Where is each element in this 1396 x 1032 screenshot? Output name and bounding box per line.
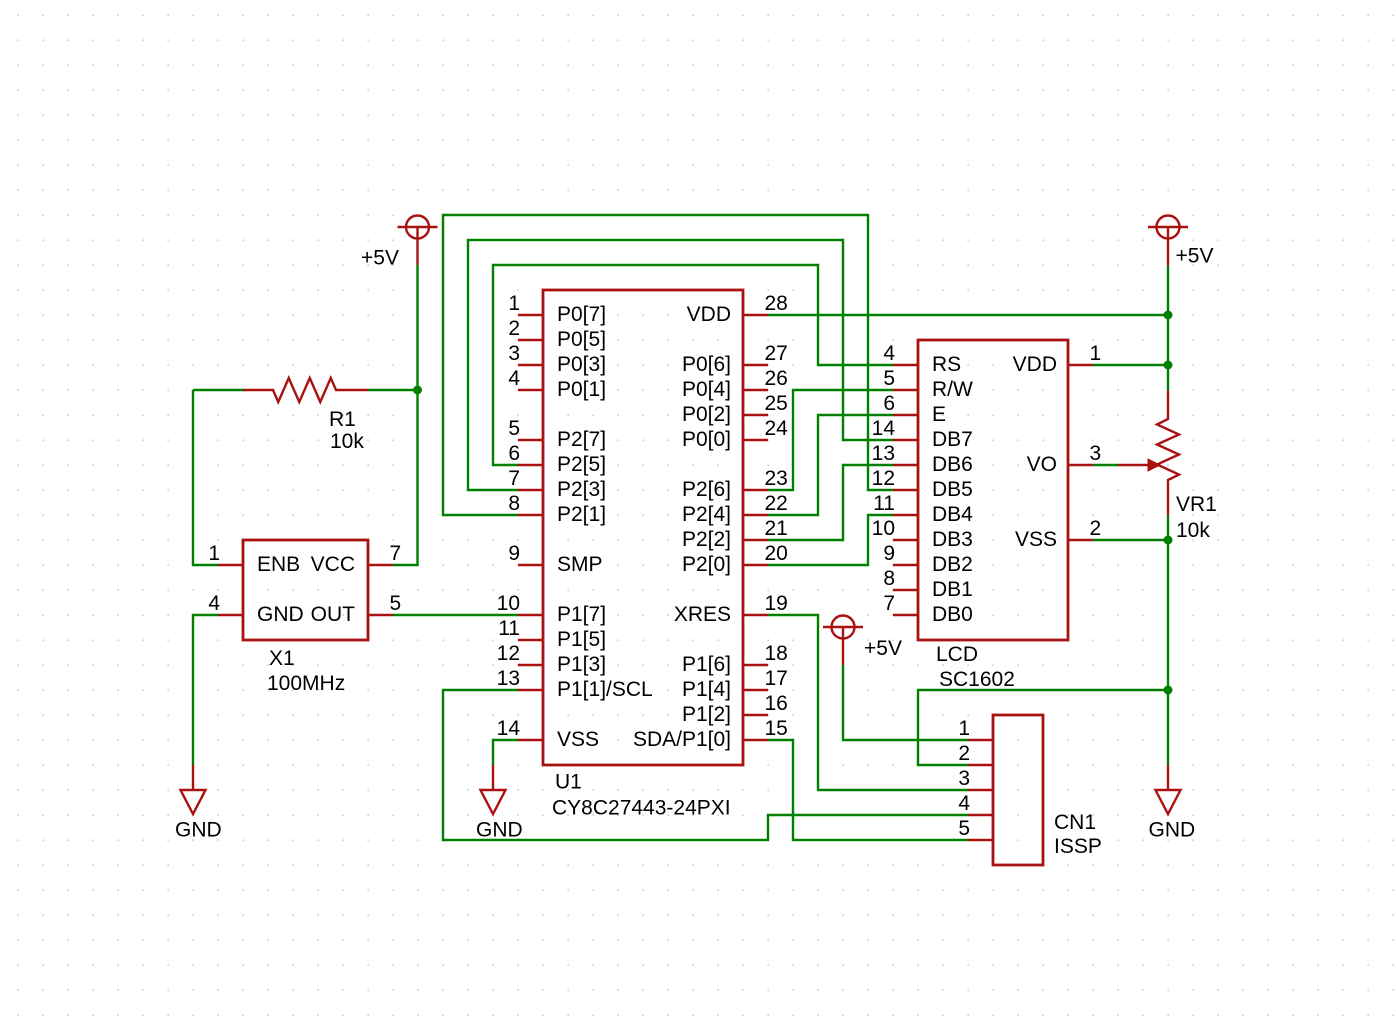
svg-text:7: 7: [883, 592, 895, 615]
svg-text:P0[1]: P0[1]: [557, 378, 606, 401]
U1 pin 15 SDA/P1[0]: [633, 717, 788, 751]
svg-text:SDA/P1[0]: SDA/P1[0]: [633, 728, 731, 751]
wire CN1 pin2 to rail: [918, 690, 1168, 765]
U1 pin 5 P2[7]: [508, 417, 606, 451]
wire R1 left vertical: [193, 390, 218, 565]
wire U1 P2[3] to LCD DB7: [468, 240, 893, 490]
svg-text:9: 9: [508, 542, 520, 565]
U1 pin 16 P1[2]: [682, 692, 788, 726]
U1 pin 1 P0[7]: [508, 292, 606, 326]
svg-text:DB6: DB6: [932, 453, 973, 476]
svg-text:DB0: DB0: [932, 603, 973, 626]
LCD pin 10 DB3: [872, 517, 973, 551]
X1 pin 5 OUT: [311, 592, 402, 626]
svg-text:+5V: +5V: [361, 247, 399, 270]
X1 pin 7 VCC: [311, 542, 402, 576]
svg-text:5: 5: [958, 817, 970, 840]
U1 pin 23 P2[6]: [682, 467, 788, 501]
U1 pin 3 P0[3]: [508, 342, 606, 376]
LCD pin 1 VDD: [1013, 342, 1102, 376]
svg-text:7: 7: [390, 542, 402, 565]
svg-text:9: 9: [883, 542, 895, 565]
svg-text:10: 10: [872, 517, 895, 540]
U1 pin 11 P1[5]: [498, 617, 606, 651]
svg-text:18: 18: [765, 642, 788, 665]
svg-text:OUT: OUT: [311, 603, 356, 626]
wire U1 P1[1]/SCL to CN1 pin4: [443, 690, 968, 840]
svg-text:8: 8: [508, 492, 520, 515]
svg-text:GND: GND: [257, 603, 304, 626]
svg-text:DB7: DB7: [932, 428, 973, 451]
wire R1 left to X1 ENB: [193, 389, 244, 391]
svg-text:P2[5]: P2[5]: [557, 453, 606, 476]
svg-text:10: 10: [497, 592, 520, 615]
wire U1 XRES to CN1 pin3: [768, 615, 968, 790]
svg-text:14: 14: [872, 417, 896, 440]
svg-text:XRES: XRES: [674, 603, 731, 626]
LCD pin 4 RS: [883, 342, 961, 376]
wire U1 P2[0] to LCD DB4: [768, 515, 893, 565]
svg-text:11: 11: [498, 617, 520, 640]
IC U1 CY8C27443-24PXI body: [543, 290, 743, 765]
U1 pin 18 P1[6]: [682, 642, 788, 676]
CN1 pin 4: [958, 792, 993, 815]
svg-text:12: 12: [497, 642, 520, 665]
svg-text:X1: X1: [269, 647, 295, 670]
svg-text:LCD: LCD: [936, 643, 978, 666]
svg-text:P1[3]: P1[3]: [557, 653, 606, 676]
U1 pin 7 P2[3]: [508, 467, 606, 501]
wire LCD VO to VR1 wiper: [1093, 464, 1118, 466]
svg-text:7: 7: [508, 467, 520, 490]
svg-text:5: 5: [390, 592, 402, 615]
svg-text:P2[2]: P2[2]: [682, 528, 731, 551]
power symbol +5V middle: [823, 616, 863, 666]
svg-text:CY8C27443-24PXI: CY8C27443-24PXI: [552, 797, 731, 820]
svg-text:ISSP: ISSP: [1054, 835, 1102, 858]
wire U1 P2[4] to LCD E: [768, 415, 893, 515]
CN1 pin 2: [958, 742, 993, 765]
wire U1 VSS to ground: [493, 740, 518, 765]
svg-text:R1: R1: [329, 408, 356, 431]
svg-text:P2[1]: P2[1]: [557, 503, 606, 526]
ground symbol GND right: [1156, 765, 1181, 814]
svg-text:19: 19: [765, 592, 788, 615]
U1 pin 21 P2[2]: [682, 517, 788, 551]
X1 pin 4 GND: [208, 592, 303, 626]
wire R1 right to +5V rail: [368, 389, 418, 391]
U1 pin 27 P0[6]: [682, 342, 788, 376]
svg-text:P0[3]: P0[3]: [557, 353, 606, 376]
svg-text:CN1: CN1: [1054, 811, 1096, 834]
svg-text:ENB: ENB: [257, 553, 300, 576]
svg-text:P0[2]: P0[2]: [682, 403, 731, 426]
svg-text:1: 1: [958, 717, 970, 740]
wire +5V to CN1 pin1: [843, 665, 968, 740]
ground symbol GND middle: [481, 765, 506, 814]
svg-text:VO: VO: [1027, 453, 1057, 476]
svg-text:E: E: [932, 403, 946, 426]
svg-text:2: 2: [1090, 517, 1102, 540]
LCD pin 2 VSS: [1015, 517, 1101, 551]
svg-text:3: 3: [508, 342, 520, 365]
svg-text:21: 21: [765, 517, 788, 540]
svg-text:15: 15: [765, 717, 788, 740]
svg-text:P1[4]: P1[4]: [682, 678, 731, 701]
svg-text:10k: 10k: [1176, 519, 1210, 542]
LCD pin 9 DB2: [883, 542, 973, 576]
svg-text:VDD: VDD: [1013, 353, 1057, 376]
U1 pin 14 VSS: [497, 717, 599, 751]
svg-text:4: 4: [883, 342, 895, 365]
svg-text:1: 1: [508, 292, 520, 315]
U1 pin 17 P1[4]: [682, 667, 788, 701]
U1 pin 25 P0[2]: [682, 392, 788, 426]
svg-text:8: 8: [883, 567, 895, 590]
U1 pin 9 SMP: [508, 542, 602, 576]
U1 pin 22 P2[4]: [682, 492, 788, 526]
svg-text:VSS: VSS: [1015, 528, 1057, 551]
svg-text:10k: 10k: [330, 430, 364, 453]
svg-text:DB4: DB4: [932, 503, 973, 526]
svg-text:GND: GND: [1149, 819, 1196, 842]
svg-text:3: 3: [958, 767, 970, 790]
svg-text:17: 17: [765, 667, 788, 690]
wire U1 P2[5] to LCD RS: [493, 265, 893, 465]
svg-text:28: 28: [765, 292, 788, 315]
CN1 pin 3: [958, 767, 993, 790]
svg-text:SC1602: SC1602: [939, 668, 1015, 691]
U1 pin 20 P2[0]: [682, 542, 788, 576]
svg-text:DB2: DB2: [932, 553, 973, 576]
svg-text:P0[6]: P0[6]: [682, 353, 731, 376]
svg-text:VCC: VCC: [311, 553, 355, 576]
svg-text:23: 23: [765, 467, 788, 490]
junction CN1 pin2 rail: [1164, 686, 1173, 695]
svg-text:DB5: DB5: [932, 478, 973, 501]
svg-text:DB3: DB3: [932, 528, 973, 551]
svg-text:2: 2: [508, 317, 520, 340]
svg-text:12: 12: [872, 467, 895, 490]
svg-text:P1[2]: P1[2]: [682, 703, 731, 726]
wire X1 OUT to U1 P1[7]: [393, 614, 518, 616]
svg-text:14: 14: [497, 717, 521, 740]
wire U1 SDA/P1[0] to CN1 pin5: [768, 740, 968, 840]
LCD pin 11 DB4: [873, 492, 973, 526]
U1 pin 6 P2[5]: [508, 442, 606, 476]
wire +5V left rail: [393, 265, 418, 565]
junction LCD VSS rail: [1164, 536, 1173, 545]
svg-text:P1[5]: P1[5]: [557, 628, 606, 651]
svg-text:4: 4: [208, 592, 220, 615]
U1 pin 13 P1[1]/SCL: [497, 667, 653, 701]
LCD pin 6 E: [883, 392, 946, 426]
svg-text:GND: GND: [476, 819, 523, 842]
LCD pin 13 DB6: [872, 442, 973, 476]
svg-text:24: 24: [765, 417, 789, 440]
U1 pin 24 P0[0]: [682, 417, 788, 451]
svg-text:16: 16: [765, 692, 788, 715]
CN1 pin 1: [958, 717, 993, 740]
CN1 pin 5: [958, 817, 993, 840]
wire U1 P2[2] to LCD DB6: [768, 465, 893, 540]
svg-text:4: 4: [508, 367, 520, 390]
wire X1 GND net: [193, 615, 218, 765]
svg-text:P0[0]: P0[0]: [682, 428, 731, 451]
svg-text:P1[1]/SCL: P1[1]/SCL: [557, 678, 653, 701]
wire LCD VSS to rail: [1093, 539, 1168, 541]
svg-text:P2[3]: P2[3]: [557, 478, 606, 501]
power symbol +5V left: [398, 216, 438, 266]
U1 pin 28 VDD: [687, 292, 788, 326]
svg-text:P2[6]: P2[6]: [682, 478, 731, 501]
svg-text:P0[4]: P0[4]: [682, 378, 731, 401]
junction LCD VDD rail: [1164, 361, 1173, 370]
LCD pin 5 R/W: [883, 367, 973, 401]
svg-text:+5V: +5V: [864, 637, 902, 660]
U1 pin 12 P1[3]: [497, 642, 606, 676]
svg-text:100MHz: 100MHz: [267, 672, 345, 695]
svg-text:P1[7]: P1[7]: [557, 603, 606, 626]
svg-text:VR1: VR1: [1176, 493, 1217, 516]
svg-text:13: 13: [872, 442, 895, 465]
svg-text:20: 20: [765, 542, 788, 565]
LCD module SC1602 body: [918, 340, 1068, 640]
svg-text:P0[5]: P0[5]: [557, 328, 606, 351]
svg-text:VSS: VSS: [557, 728, 599, 751]
wire LCD VDD to +5V rail: [1093, 364, 1168, 366]
U1 pin 2 P0[5]: [508, 317, 606, 351]
svg-text:6: 6: [508, 442, 520, 465]
svg-text:R/W: R/W: [932, 378, 973, 401]
U1 pin 26 P0[4]: [682, 367, 788, 401]
LCD pin 8 DB1: [883, 567, 973, 601]
potentiometer VR1 wiper arrow: [1118, 459, 1160, 471]
svg-text:1: 1: [208, 542, 220, 565]
wire U1 VDD to +5V rail: [768, 314, 1168, 316]
LCD pin 12 DB5: [872, 467, 973, 501]
junction R1 / +5V rail: [413, 386, 422, 395]
svg-text:VDD: VDD: [687, 303, 731, 326]
svg-text:+5V: +5V: [1176, 245, 1214, 268]
svg-text:P1[6]: P1[6]: [682, 653, 731, 676]
junction VDD rail: [1164, 311, 1173, 320]
svg-text:27: 27: [765, 342, 788, 365]
ground symbol GND left: [181, 765, 206, 814]
svg-text:13: 13: [497, 667, 520, 690]
svg-text:P2[0]: P2[0]: [682, 553, 731, 576]
oscillator X1 100MHz body: [243, 540, 368, 640]
X1 pin 1 ENB: [208, 542, 300, 576]
U1 pin 19 XRES: [674, 592, 788, 626]
connector CN1 ISSP body: [993, 715, 1043, 865]
LCD pin 14 DB7: [872, 417, 973, 451]
svg-text:GND: GND: [175, 819, 222, 842]
power symbol +5V right: [1148, 216, 1188, 266]
svg-text:DB1: DB1: [932, 578, 973, 601]
svg-text:3: 3: [1090, 442, 1102, 465]
svg-text:P0[7]: P0[7]: [557, 303, 606, 326]
resistor R1 10k: [243, 378, 368, 402]
wire U1 P2[6] to LCD R/W: [768, 390, 893, 490]
svg-text:SMP: SMP: [557, 553, 603, 576]
svg-text:P2[4]: P2[4]: [682, 503, 731, 526]
U1 pin 8 P2[1]: [508, 492, 606, 526]
svg-text:5: 5: [883, 367, 895, 390]
svg-text:25: 25: [765, 392, 788, 415]
svg-text:P2[7]: P2[7]: [557, 428, 606, 451]
svg-text:RS: RS: [932, 353, 961, 376]
LCD pin 7 DB0: [883, 592, 973, 626]
svg-text:4: 4: [958, 792, 970, 815]
svg-text:11: 11: [873, 492, 895, 515]
svg-text:26: 26: [765, 367, 788, 390]
potentiometer VR1 10k body: [1157, 390, 1179, 515]
wire +5V right rail upper: [1167, 265, 1169, 390]
svg-text:5: 5: [508, 417, 520, 440]
wire U1 P2[1] to LCD DB5: [443, 215, 893, 515]
svg-text:22: 22: [765, 492, 788, 515]
svg-text:2: 2: [958, 742, 970, 765]
LCD pin 3 VO: [1027, 442, 1102, 476]
wire right rail lower to ground: [1167, 515, 1169, 765]
svg-text:U1: U1: [555, 771, 582, 794]
U1 pin 10 P1[7]: [497, 592, 606, 626]
U1 pin 4 P0[1]: [508, 367, 606, 401]
svg-text:1: 1: [1090, 342, 1102, 365]
svg-text:6: 6: [883, 392, 895, 415]
